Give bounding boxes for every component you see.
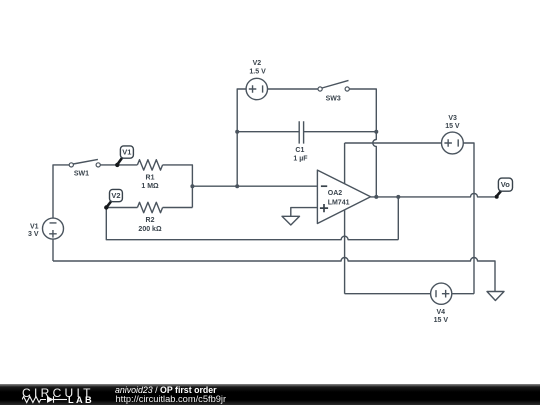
svg-text:1 MΩ: 1 MΩ <box>141 183 159 190</box>
svg-text:1.5 V: 1.5 V <box>249 69 266 76</box>
svg-text:15 V: 15 V <box>445 123 460 130</box>
svg-text:R2: R2 <box>146 217 155 224</box>
svg-text:V4: V4 <box>437 309 446 316</box>
svg-text:SW1: SW1 <box>74 171 89 178</box>
svg-text:1 µF: 1 µF <box>293 155 308 162</box>
svg-text:V3: V3 <box>448 115 457 122</box>
svg-text:3 V: 3 V <box>28 231 39 238</box>
svg-text:OA2: OA2 <box>328 190 343 197</box>
svg-text:V1: V1 <box>122 148 131 157</box>
svg-text:200 kΩ: 200 kΩ <box>138 226 162 233</box>
svg-text:V1: V1 <box>30 223 39 230</box>
svg-text:C1: C1 <box>295 147 304 154</box>
svg-text:SW3: SW3 <box>326 96 341 103</box>
svg-text:V2: V2 <box>253 60 262 67</box>
svg-text:V2: V2 <box>111 191 120 200</box>
svg-text:15 V: 15 V <box>434 317 449 324</box>
svg-text:R1: R1 <box>146 174 155 181</box>
svg-text:Vo: Vo <box>501 180 510 189</box>
svg-text:LM741: LM741 <box>328 199 350 206</box>
